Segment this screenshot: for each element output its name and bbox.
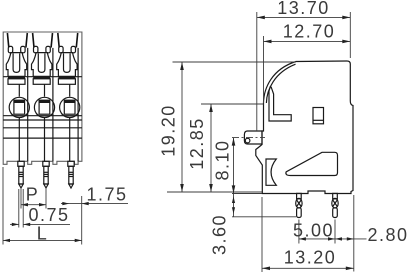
dim 2.80 — [353, 195, 355, 272]
solder pin side view at x=298.9 — [297, 193, 302, 198]
clamp dark band — [33, 76, 50, 78]
circle under-arc — [11, 114, 28, 118]
cell wall — [52, 48, 54, 161]
wire line upper — [44, 84, 46, 96]
dim 0.75 — [18, 189, 20, 228]
lever extension verticals — [256, 12, 258, 131]
svg-text:0.75: 0.75 — [29, 205, 70, 225]
wire entry circle — [34, 97, 54, 117]
svg-text:2.80: 2.80 — [368, 225, 409, 245]
screw square — [64, 100, 75, 114]
clamp funnel — [7, 33, 8, 48]
clamp rolled edges — [8, 46, 12, 52]
solder pin front view at x=21 — [18, 161, 24, 166]
dim L — [2, 167, 4, 245]
svg-text:5.00: 5.00 — [293, 220, 334, 240]
clamp dark band — [58, 76, 75, 78]
clamp lower block — [58, 79, 75, 85]
wire line lower — [69, 118, 71, 162]
screw square — [14, 100, 25, 114]
clamp rolled edges — [59, 46, 63, 52]
svg-text:1.75: 1.75 — [87, 184, 128, 204]
clamp dark band — [8, 76, 25, 78]
wire entry circle — [9, 97, 29, 117]
circle under-arc — [61, 114, 78, 118]
side view housing outline — [256, 61, 353, 194]
clamp funnel — [58, 33, 59, 48]
wire line lower — [18, 118, 20, 162]
release lever — [244, 131, 262, 144]
lever circle — [245, 138, 250, 143]
cell wall — [77, 48, 79, 161]
dim 12.70 — [264, 40, 351, 42]
spring clamp body — [32, 53, 52, 77]
clamp lower block — [8, 79, 25, 85]
clamp slot — [64, 53, 71, 72]
dim 8.10 — [232, 193, 262, 195]
svg-text:13.20: 13.20 — [284, 247, 337, 267]
housing horizontal parting line — [3, 76, 82, 78]
svg-text:12.70: 12.70 — [283, 21, 336, 41]
L-shaped slot — [269, 87, 291, 121]
svg-text:8.10: 8.10 — [213, 139, 233, 180]
solder pin side view at x=335.0 — [333, 193, 338, 198]
dim 13.20 — [261, 197, 263, 272]
dim 1.75 — [61, 203, 128, 205]
svg-text:19.20: 19.20 — [159, 104, 179, 157]
clamp slot — [13, 53, 20, 72]
dim 13.70 — [349, 12, 351, 58]
wire entry circle — [60, 97, 80, 117]
svg-text:12.85: 12.85 — [187, 117, 207, 170]
cell wall — [27, 48, 29, 161]
clamp slot — [38, 53, 45, 72]
clamp rolled edges — [34, 46, 38, 52]
dim 5.00 — [298, 220, 300, 244]
front view housing outline — [3, 32, 82, 164]
wire line upper — [69, 84, 71, 96]
wire line upper — [18, 84, 20, 96]
small square window — [313, 108, 324, 124]
dim 3.60 — [232, 216, 296, 218]
dim 8.10 centerline — [232, 137, 265, 139]
crescent slot — [266, 159, 276, 185]
dim 12.85 — [201, 103, 264, 105]
clamp lower block — [33, 79, 50, 85]
svg-text:13.70: 13.70 — [277, 0, 330, 18]
housing inner lines — [3, 115, 82, 117]
dim P — [20, 188, 22, 209]
spring clamp body — [6, 53, 26, 77]
wedge opening — [286, 152, 338, 175]
solder pin front view at x=71 — [68, 161, 74, 166]
spring clamp body — [57, 53, 77, 77]
screw square — [39, 100, 50, 114]
circle under-arc — [36, 114, 53, 118]
svg-text:L: L — [37, 223, 49, 243]
side view inner arc line — [266, 64, 295, 103]
svg-text:P: P — [26, 184, 40, 204]
solder pin front view at x=46 — [43, 161, 49, 166]
clamp funnel — [33, 33, 34, 48]
svg-text:3.60: 3.60 — [210, 214, 230, 255]
wire line lower — [44, 118, 46, 162]
dim 19.20 — [173, 61, 297, 63]
